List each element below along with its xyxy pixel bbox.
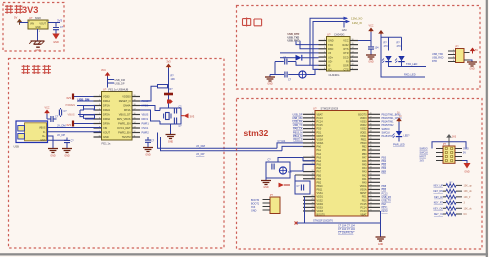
- svg-text:PA2: PA2: [362, 174, 367, 177]
- wire lower cap row: [270, 74, 284, 76]
- usb receptacle J1: [14, 121, 48, 149]
- svg-text:35: 35: [369, 159, 371, 161]
- svg-text:3V3: 3V3: [57, 19, 63, 23]
- svg-text:OVC1_DET: OVC1_DET: [117, 126, 131, 130]
- wire XIN to loop: [140, 106, 160, 111]
- svg-text:STM32F103C8T6: STM32F103C8T6: [313, 220, 333, 223]
- LED D4: [393, 131, 411, 138]
- svg-text:KEY2: KEY2: [382, 210, 389, 213]
- svg-text:PWR1_EN: PWR1_EN: [118, 122, 130, 126]
- ground at J1: [48, 149, 58, 158]
- wire loop to OSC_OUT: [290, 164, 315, 171]
- svg-text:PA2: PA2: [317, 153, 322, 156]
- svg-text:VBUS: VBUS: [68, 112, 75, 116]
- svg-text:USB_RX: USB_RX: [382, 196, 392, 199]
- svg-text:32: 32: [369, 170, 371, 172]
- svg-text:2: 2: [312, 116, 313, 118]
- wire J1 D+ to U2: [48, 131, 102, 133]
- wire pin1: [74, 96, 94, 98]
- wire diode row: [280, 57, 296, 59]
- svg-text:CH340G: CH340G: [329, 73, 340, 77]
- svg-text:PA5: PA5: [362, 164, 367, 167]
- svg-text:PA7: PA7: [317, 171, 322, 174]
- svg-text:CTS: CTS: [344, 69, 349, 72]
- svg-text:NRST: NRST: [360, 192, 367, 195]
- svg-text:26: 26: [369, 192, 371, 194]
- ground bottom: [376, 237, 386, 246]
- header label stack: [432, 53, 444, 63]
- ground under loop: [166, 135, 176, 144]
- svg-text:PC14: PC14: [360, 206, 367, 209]
- svg-text:25: 25: [311, 199, 313, 201]
- svg-text:1: 1: [99, 95, 100, 97]
- svg-text:PB2: PB2: [362, 146, 367, 149]
- power port VCC above U2: [101, 69, 110, 78]
- svg-text:PC13: PC13: [317, 117, 324, 120]
- resistor RA2: [433, 188, 472, 194]
- power port LED rail: [378, 30, 384, 34]
- svg-text:PWR_LED: PWR_LED: [393, 144, 405, 147]
- svg-text:UD-: UD-: [328, 60, 333, 63]
- svg-text:VSSA: VSSA: [360, 189, 367, 192]
- LED rail wires: [381, 35, 425, 78]
- svg-text:14: 14: [133, 122, 135, 124]
- header P1: [456, 46, 465, 63]
- title 串口: [243, 18, 262, 27]
- svg-text:27: 27: [369, 188, 371, 190]
- svg-text:PB0: PB0: [362, 153, 367, 156]
- LED D2: [385, 56, 391, 61]
- svg-text:7: 7: [99, 122, 100, 124]
- svg-text:13: 13: [311, 156, 313, 158]
- svg-text:1: 1: [29, 21, 30, 23]
- svg-text:DRV_VBUS: DRV_VBUS: [117, 117, 131, 121]
- svg-text:44: 44: [369, 127, 371, 129]
- svg-text:43: 43: [369, 131, 371, 133]
- svg-text:VSS2: VSS2: [360, 128, 367, 131]
- svg-text:14: 14: [351, 47, 353, 49]
- svg-text:PB11: PB11: [317, 189, 323, 192]
- svg-text:PWR2: PWR2: [142, 132, 150, 135]
- wire VCC stem: [107, 77, 109, 88]
- svg-text:PB8: PB8: [382, 185, 387, 188]
- svg-text:8: 8: [324, 68, 325, 70]
- svg-text:3: 3: [99, 104, 100, 106]
- capacitor C4: [64, 140, 74, 143]
- svg-text:PC13: PC13: [360, 210, 367, 213]
- right rail wires: [370, 32, 372, 46]
- svg-text:LED?: LED?: [404, 135, 411, 138]
- svg-text:VBUS_DT: VBUS_DT: [119, 113, 131, 117]
- svg-text:DCD: DCD: [343, 56, 349, 59]
- svg-text:1: 1: [324, 39, 325, 41]
- svg-text:12M_XI: 12M_XI: [352, 21, 362, 25]
- svg-text:TXD_LED: TXD_LED: [406, 63, 417, 66]
- svg-text:VDD2: VDD2: [360, 124, 367, 127]
- svg-text:20: 20: [133, 95, 135, 97]
- svg-text:16: 16: [133, 113, 135, 115]
- svg-text:10K_ok: 10K_ok: [464, 207, 473, 210]
- U3 pin names: [328, 40, 349, 72]
- svg-text:FE1.1s USBHUB: FE1.1s USBHUB: [109, 88, 129, 92]
- svg-text:VDD1: VDD1: [360, 131, 367, 134]
- svg-text:16: 16: [351, 39, 353, 41]
- svg-text:PA0: PA0: [317, 146, 322, 149]
- svg-text:VSS1: VSS1: [317, 192, 324, 195]
- U4 right pin stubs: [368, 113, 380, 212]
- crystal loop stm32: [266, 162, 290, 178]
- svg-text:USB_RXD: USB_RXD: [288, 40, 300, 43]
- power port VCC above J1: [44, 107, 50, 116]
- title 稳压3V3: [5, 5, 38, 15]
- power port GND arrow: [52, 34, 59, 45]
- wire crystal to XO: [306, 69, 318, 74]
- svg-text:PB11: PB11: [361, 138, 367, 141]
- svg-text:PB5: PB5: [382, 164, 387, 167]
- svg-text:10: 10: [351, 64, 353, 66]
- svg-text:SWCLK: SWCLK: [382, 131, 391, 134]
- crystal X1 circle: [299, 71, 306, 78]
- power port 3V3 top right: [166, 61, 172, 70]
- U4 left pin stubs: [303, 113, 315, 212]
- page bottom border: [0, 253, 488, 255]
- svg-text:1: 1: [312, 113, 313, 115]
- svg-text:VDD3: VDD3: [317, 210, 324, 213]
- wire pin6 stub: [85, 118, 94, 120]
- svg-text:KEY_OK: KEY_OK: [433, 207, 443, 210]
- capacitor C8: [283, 57, 287, 65]
- svg-text:C? 104: C? 104: [278, 140, 286, 143]
- wire J1 D- to U2: [48, 127, 102, 129]
- ground serial left: [265, 75, 275, 86]
- svg-text:GND: GND: [378, 243, 384, 246]
- capacitor C1: [53, 26, 64, 30]
- svg-text:3V3: 3V3: [166, 61, 171, 64]
- svg-text:DP1A: DP1A: [103, 104, 110, 108]
- wire VIN: [20, 22, 29, 24]
- svg-text:23: 23: [369, 202, 371, 204]
- svg-text:5V: 5V: [399, 116, 402, 118]
- svg-text:DP4A: DP4A: [124, 108, 131, 112]
- svg-text:21: 21: [369, 209, 371, 211]
- svg-text:5V: 5V: [14, 16, 17, 20]
- svg-text:GND: GND: [263, 186, 269, 189]
- right net labels: [382, 114, 402, 214]
- svg-text:3V3: 3V3: [452, 137, 457, 139]
- wire pin5: [78, 114, 94, 116]
- svg-text:5: 5: [324, 55, 325, 57]
- power port GND at P2: [462, 161, 471, 174]
- svg-text:PB10: PB10: [361, 142, 368, 145]
- wire power stem: [168, 68, 170, 108]
- svg-text:PC13: PC13: [382, 192, 389, 195]
- ground at C4: [62, 149, 72, 158]
- svg-text:104: 104: [375, 47, 380, 50]
- hub controller U2: [102, 88, 133, 146]
- capacitor C9: [285, 72, 292, 82]
- svg-text:2: 2: [324, 43, 325, 45]
- svg-text:24: 24: [369, 199, 371, 201]
- wire LED1 out: [389, 57, 427, 67]
- svg-text:5V: 5V: [397, 113, 400, 115]
- svg-text:GND: GND: [368, 61, 374, 64]
- svg-text:VDDA: VDDA: [317, 142, 324, 145]
- svg-text:PA4: PA4: [362, 167, 367, 170]
- svg-text:3: 3: [324, 47, 325, 49]
- vertical join: [274, 62, 276, 75]
- wire pin7: [74, 123, 94, 125]
- svg-text:FE1.1s: FE1.1s: [102, 141, 111, 145]
- svg-text:34: 34: [369, 163, 371, 165]
- svg-text:PC15: PC15: [317, 124, 324, 127]
- crystal loop wires: [160, 108, 181, 124]
- svg-text:3V3: 3V3: [420, 160, 425, 163]
- capacitor C3: [47, 116, 59, 123]
- svg-text:PB13_S: PB13_S: [293, 138, 303, 141]
- svg-text:VD33: VD33: [103, 95, 110, 99]
- svg-text:VIN: VIN: [30, 23, 34, 26]
- block frame stm32: [237, 99, 483, 250]
- power flag node: [167, 100, 173, 104]
- U4 pin names: [317, 113, 368, 216]
- svg-text:JX_DM: JX_DM: [57, 123, 66, 127]
- svg-text:VBAT: VBAT: [360, 214, 367, 217]
- svg-text:GND: GND: [53, 41, 59, 44]
- ground under C7: [143, 148, 153, 157]
- svg-text:41: 41: [369, 138, 371, 140]
- resistor RA1: [434, 182, 473, 188]
- svg-text:17: 17: [311, 170, 313, 172]
- svg-text:USB_DM: USB_DM: [292, 117, 302, 120]
- U2 right pin stubs: [132, 95, 140, 137]
- svg-text:SWCLK: SWCLK: [420, 152, 429, 155]
- svg-text:8: 8: [312, 138, 313, 140]
- block frame 串口: [237, 6, 481, 90]
- svg-text:VCC: VCC: [368, 25, 373, 28]
- svg-text:10K_dn: 10K_dn: [464, 190, 473, 193]
- svg-text:36: 36: [369, 156, 371, 158]
- svg-text:470: 470: [384, 45, 389, 48]
- svg-text:PA3: PA3: [362, 171, 367, 174]
- power port 5V at P1: [470, 48, 479, 54]
- svg-text:3: 3: [46, 21, 47, 23]
- svg-text:11: 11: [352, 60, 354, 62]
- svg-text:XO: XO: [328, 69, 332, 72]
- wire loop to ground: [170, 124, 172, 134]
- svg-text:PB15/TIM2: PB15/TIM2: [382, 124, 395, 127]
- svg-text:17: 17: [133, 108, 135, 110]
- svg-text:PA6: PA6: [362, 160, 367, 163]
- svg-text:KEY_X1: KEY_X1: [434, 213, 444, 216]
- svg-text:5V: 5V: [475, 49, 478, 52]
- svg-text:7: 7: [312, 134, 313, 136]
- svg-text:C? 10uF/6.3V: C? 10uF/6.3V: [338, 232, 354, 235]
- svg-text:662K: 662K: [35, 16, 41, 20]
- svg-text:VDD50: VDD50: [122, 95, 131, 99]
- svg-text:PWREN: PWREN: [66, 103, 76, 107]
- power flag left arrow: [279, 183, 291, 188]
- wire VCC down: [46, 114, 48, 119]
- svg-text:3: 3: [312, 120, 313, 122]
- svg-text:JX_DM: JX_DM: [196, 144, 206, 148]
- svg-text:22: 22: [369, 206, 371, 208]
- wire pin3: [77, 105, 94, 107]
- wire to C1: [55, 23, 57, 27]
- svg-text:VSS3: VSS3: [317, 206, 324, 209]
- svg-text:PB7: PB7: [382, 171, 387, 174]
- net label stack: [288, 33, 300, 42]
- usb-serial U3: [327, 33, 351, 77]
- svg-text:RTS: RTS: [344, 48, 349, 51]
- svg-text:GND: GND: [469, 68, 475, 71]
- svg-text:PA1: PA1: [362, 178, 367, 181]
- svg-text:13: 13: [133, 126, 135, 128]
- svg-text:30: 30: [369, 177, 371, 179]
- svg-text:VSS1: VSS1: [360, 135, 367, 138]
- capacitor C5: [174, 107, 182, 114]
- svg-text:GND: GND: [145, 154, 151, 157]
- svg-text:PB6: PB6: [382, 167, 387, 170]
- wire DM4 to bus: [158, 133, 278, 149]
- svg-text:9: 9: [352, 68, 353, 70]
- svg-text:28: 28: [311, 209, 313, 211]
- P3 pins: [263, 200, 271, 211]
- wire XI up-over: [310, 18, 347, 65]
- svg-text:VDD3: VDD3: [360, 117, 367, 120]
- svg-text:1: 1: [453, 50, 454, 52]
- svg-text:GND: GND: [328, 40, 334, 43]
- svg-text:47: 47: [369, 116, 371, 118]
- svg-text:D-: D-: [43, 131, 46, 134]
- svg-text:PB3: PB3: [382, 156, 387, 159]
- P2 left labels: [420, 148, 429, 163]
- svg-text:2: 2: [99, 99, 100, 101]
- svg-text:38: 38: [369, 149, 371, 151]
- wire TXD: [296, 41, 319, 45]
- bottom rail: [297, 222, 381, 224]
- svg-text:7: 7: [324, 64, 325, 66]
- svg-text:GND: GND: [40, 139, 46, 142]
- P2 right labels: [463, 148, 469, 155]
- svg-text:VDDA: VDDA: [360, 185, 367, 188]
- svg-text:DM1A: DM1A: [103, 99, 110, 103]
- svg-text:3V3: 3V3: [190, 115, 195, 119]
- svg-text:6: 6: [99, 117, 100, 119]
- svg-text:USB: USB: [14, 145, 20, 149]
- wire shell to C4: [48, 138, 68, 141]
- svg-text:GND: GND: [267, 83, 273, 86]
- svg-text:GND: GND: [64, 155, 70, 158]
- svg-text:4: 4: [99, 108, 100, 110]
- LED D4 lower stub: [393, 137, 405, 146]
- svg-text:40: 40: [369, 141, 371, 143]
- svg-text:GND: GND: [464, 171, 470, 174]
- svg-text:31: 31: [369, 174, 371, 176]
- svg-text:PB2: PB2: [317, 181, 322, 184]
- svg-text:12: 12: [133, 131, 135, 133]
- bus D+ step: [277, 143, 303, 148]
- wire upper cap row: [275, 61, 284, 63]
- svg-text:18: 18: [133, 104, 135, 106]
- mcu U4: [313, 106, 368, 216]
- svg-text:42: 42: [369, 134, 371, 136]
- svg-text:PA3: PA3: [317, 156, 322, 159]
- svg-text:BOOT0: BOOT0: [358, 113, 367, 116]
- svg-text:4: 4: [453, 60, 454, 62]
- svg-text:12: 12: [351, 55, 353, 57]
- svg-text:19: 19: [311, 177, 313, 179]
- svg-text:5: 5: [312, 127, 313, 129]
- svg-text:29: 29: [369, 181, 371, 183]
- svg-text:PB9: PB9: [382, 189, 387, 192]
- resistor RA4: [434, 199, 466, 205]
- wire loop to OSC_IN: [278, 158, 315, 163]
- svg-text:10: 10: [311, 145, 313, 147]
- wire VOUT node 3V3: [48, 22, 60, 24]
- svg-text:OVC1: OVC1: [142, 127, 149, 130]
- svg-text:TESTM: TESTM: [122, 135, 131, 139]
- svg-text:KEY_LF: KEY_LF: [434, 196, 443, 199]
- svg-text:PB14_M: PB14_M: [293, 135, 303, 138]
- wire DP4 to bus: [161, 137, 283, 151]
- svg-text:3V3: 3V3: [22, 5, 38, 15]
- svg-text:VCC: VCC: [343, 40, 348, 43]
- net arrow 12M_XI: [346, 20, 351, 23]
- ground under U1: [29, 41, 44, 52]
- svg-text:R232: R232: [343, 44, 350, 47]
- svg-text:VCC: VCC: [101, 69, 106, 72]
- svg-text:PA4: PA4: [317, 160, 322, 163]
- svg-text:KEY_DN: KEY_DN: [433, 190, 443, 193]
- svg-text:VBUS: VBUS: [39, 127, 46, 130]
- power flag P2: [446, 134, 457, 146]
- wire C1 to GND port: [55, 30, 57, 34]
- svg-text:VSSA: VSSA: [317, 138, 324, 141]
- svg-text:13: 13: [351, 51, 353, 53]
- svg-text:XOUT: XOUT: [103, 131, 111, 135]
- svg-text:25: 25: [369, 195, 371, 197]
- svg-text:DP2A: DP2A: [103, 113, 110, 117]
- svg-text:19: 19: [133, 99, 135, 101]
- svg-text:VBUS: VBUS: [142, 114, 149, 117]
- P2 top loop: [432, 142, 466, 149]
- svg-text:SWDIO: SWDIO: [382, 128, 390, 131]
- wire RXD: [300, 41, 319, 49]
- wire XO up-over: [313, 22, 349, 70]
- label R 10K: [171, 75, 176, 82]
- svg-text:3V3: 3V3: [66, 123, 71, 127]
- crystal Y1: [164, 113, 171, 120]
- svg-text:VDD1: VDD1: [317, 196, 324, 199]
- svg-text:39: 39: [369, 145, 371, 147]
- resistor R5 label: [397, 42, 402, 49]
- wire XOUT to loop: [140, 110, 160, 121]
- U2 pin names: [103, 95, 131, 140]
- svg-text:GND: GND: [251, 210, 257, 213]
- svg-text:PC14: PC14: [317, 121, 324, 124]
- svg-text:PWR1: PWR1: [142, 123, 150, 126]
- right vss drop: [380, 211, 382, 237]
- svg-text:DM2A: DM2A: [103, 108, 110, 112]
- svg-text:PD0: PD0: [362, 199, 367, 202]
- no-erc cross: [295, 222, 298, 225]
- svg-text:JX_DP: JX_DP: [196, 152, 205, 156]
- svg-text:RXD: RXD: [328, 48, 333, 51]
- resistor R1: [80, 106, 95, 110]
- svg-text:5: 5: [99, 113, 100, 115]
- svg-text:24: 24: [311, 195, 313, 197]
- power flag above LED: [396, 118, 402, 122]
